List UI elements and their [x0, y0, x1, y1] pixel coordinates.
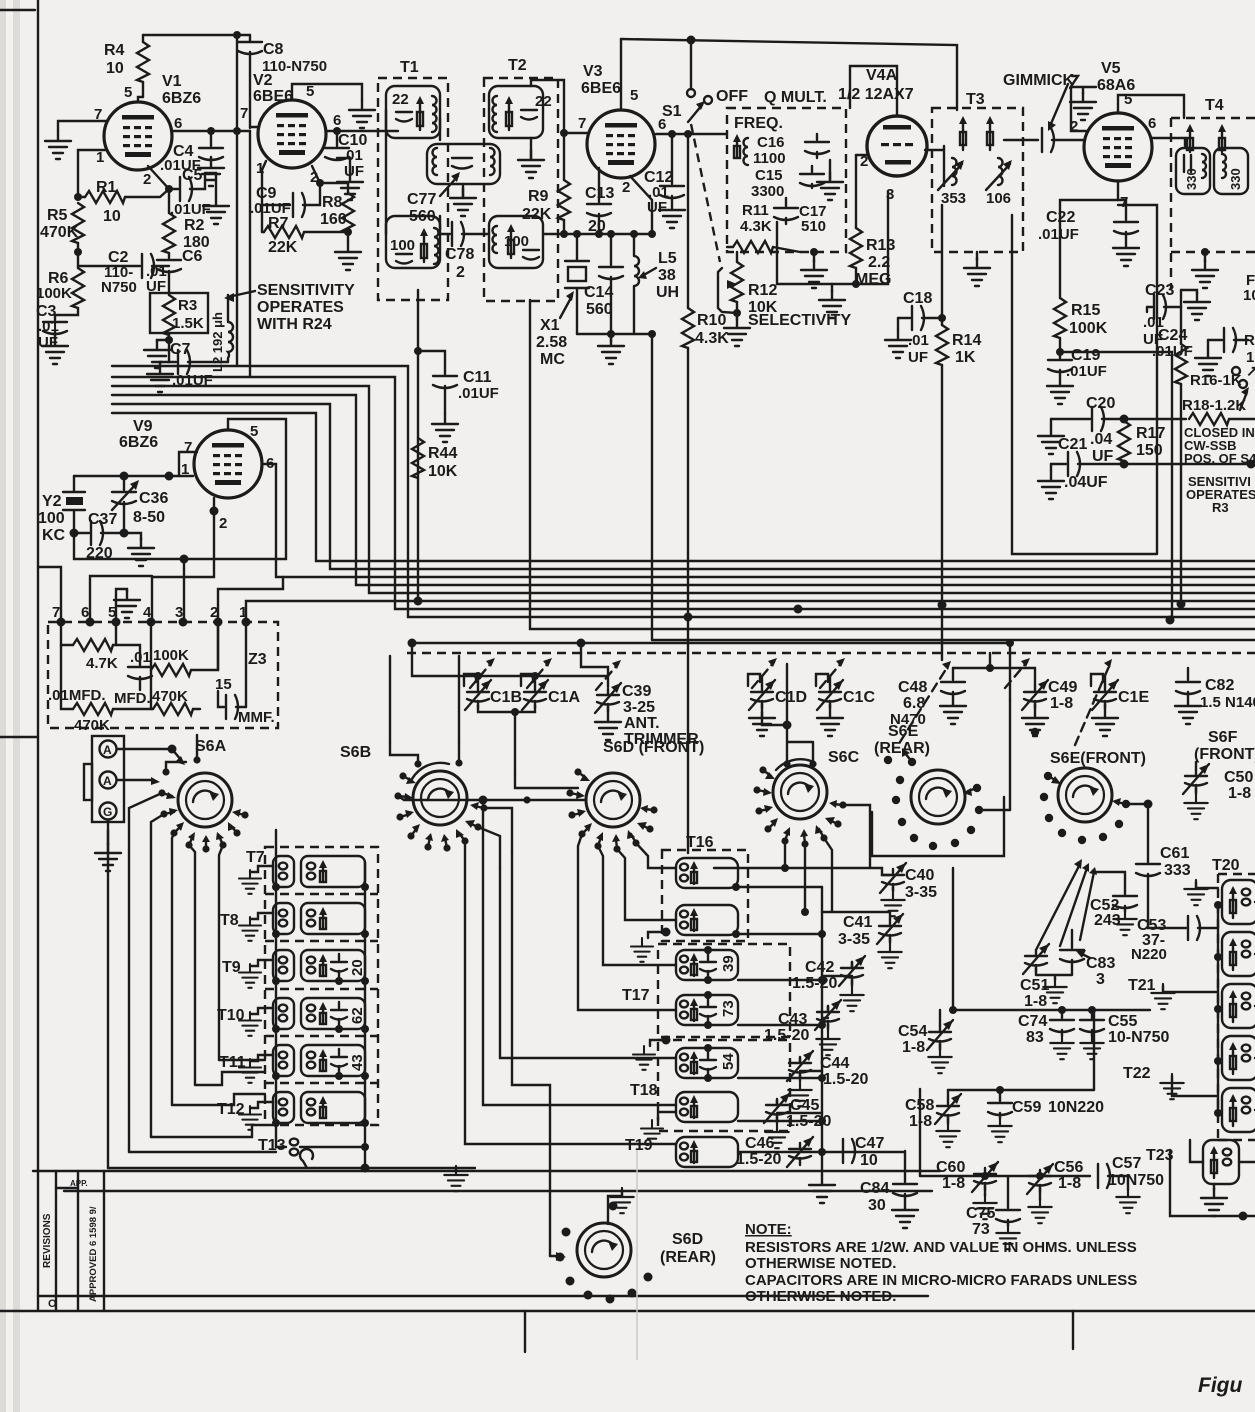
- svg-text:R4: R4: [104, 42, 125, 59]
- trimmer brackets: [464, 674, 1103, 686]
- svg-text:C54: C54: [898, 1023, 927, 1040]
- T16 row1 coil: [676, 858, 822, 891]
- transformer T3 box: [932, 91, 1023, 252]
- left margin tick: [0, 736, 38, 738]
- svg-text:2: 2: [219, 515, 227, 532]
- ground: [198, 158, 224, 186]
- wire pin2 V3 slant: [630, 176, 652, 234]
- svg-text:6.8: 6.8: [903, 695, 925, 712]
- crystal X1: [536, 230, 589, 368]
- svg-text:100K: 100K: [1069, 320, 1108, 337]
- switch S4 contacts: [1239, 380, 1249, 410]
- svg-text:C1D: C1D: [775, 689, 807, 706]
- svg-text:S6E(FRONT): S6E(FRONT): [1050, 750, 1146, 767]
- T1 top tuned circuit: [386, 86, 440, 138]
- S6A contacts: [158, 756, 248, 852]
- svg-text:353: 353: [941, 190, 966, 207]
- svg-text:3300: 3300: [751, 183, 784, 200]
- svg-text:C51: C51: [1020, 977, 1049, 994]
- svg-text:C45: C45: [790, 1097, 819, 1114]
- svg-text:30: 30: [868, 1197, 886, 1214]
- svg-text:APP.: APP.: [70, 1179, 88, 1188]
- rotary switch S6E rear: [874, 723, 965, 824]
- wire row: [949, 868, 1150, 1014]
- svg-text:.04: .04: [1090, 431, 1112, 448]
- ground bottom of vertical: [809, 1175, 835, 1203]
- gimmick capacitor: [1042, 128, 1084, 152]
- Z3 pin7 wire: [38, 567, 61, 622]
- svg-text:C44: C44: [820, 1055, 849, 1072]
- svg-text:C5: C5: [182, 167, 203, 184]
- capacitor C83: [1036, 930, 1115, 1003]
- top B+ wire: [621, 36, 957, 111]
- svg-text:100K: 100K: [36, 285, 72, 302]
- svg-text:ANT.: ANT.: [624, 715, 660, 732]
- svg-text:4.3K: 4.3K: [695, 330, 729, 347]
- resistor R17: [1118, 421, 1165, 461]
- Z3 cap 15 MMF: [215, 622, 275, 726]
- right vertical of bank: [818, 887, 826, 1175]
- svg-text:2: 2: [456, 264, 465, 281]
- wire A2: [117, 777, 160, 785]
- svg-text:1100: 1100: [753, 150, 786, 167]
- svg-text:C15: C15: [755, 167, 783, 184]
- svg-text:22K: 22K: [268, 239, 298, 256]
- transformer T10: [217, 998, 369, 1036]
- T3 secondary out: [1004, 139, 1038, 141]
- svg-text:330: 330: [1184, 168, 1199, 190]
- svg-text:V3: V3: [583, 63, 603, 80]
- svg-text:7: 7: [578, 115, 586, 132]
- svg-text:UF: UF: [647, 199, 667, 216]
- bank verticals: [276, 830, 370, 1173]
- svg-text:510: 510: [801, 218, 826, 235]
- svg-text:R7: R7: [268, 215, 289, 232]
- svg-text:V5: V5: [1101, 60, 1121, 77]
- capacitor C7: [169, 340, 228, 389]
- trimmer C45: [764, 1093, 831, 1148]
- svg-text:7: 7: [52, 604, 60, 621]
- trimmer C1D: [749, 676, 807, 736]
- resistor R11: [727, 202, 800, 253]
- svg-text:3: 3: [175, 604, 183, 621]
- Z3 resistor 470K lower: [74, 670, 200, 734]
- svg-text:22K: 22K: [522, 206, 552, 223]
- svg-text:4.7K: 4.7K: [86, 655, 118, 672]
- transformer T1 box: [378, 59, 448, 300]
- T4 slug arrows: [1186, 124, 1226, 152]
- svg-text:10: 10: [106, 60, 124, 77]
- svg-text:R44: R44: [428, 445, 457, 462]
- svg-text:T2: T2: [508, 57, 527, 74]
- rotary switch S6B: [340, 744, 467, 825]
- wire pin6 V3: [656, 130, 727, 138]
- wire row 2: [948, 1010, 1094, 1094]
- svg-text:Y2: Y2: [42, 493, 62, 510]
- S6A feeder wires down: [108, 735, 223, 1168]
- svg-text:5: 5: [1124, 91, 1132, 108]
- svg-text:.01UF: .01UF: [458, 385, 499, 402]
- T3 plate wire: [925, 149, 944, 151]
- wire pin7 V3: [560, 129, 587, 137]
- svg-text:C82: C82: [1205, 677, 1234, 694]
- crystal Y2: [38, 476, 85, 544]
- svg-text:62: 62: [349, 1007, 366, 1024]
- sensitivity note right: [1186, 474, 1255, 515]
- T3 primary coil: [938, 146, 966, 207]
- bottom right tick lines: [525, 1311, 1073, 1352]
- S6D left feeder: [398, 796, 586, 805]
- svg-text:1-8: 1-8: [1024, 993, 1047, 1010]
- ground under T3: [964, 252, 990, 286]
- svg-text:8-50: 8-50: [133, 509, 165, 526]
- ground in box: [817, 160, 843, 200]
- wire T2 top to V3 grid: [531, 80, 564, 135]
- svg-text:73: 73: [720, 1000, 737, 1017]
- svg-text:C7: C7: [170, 341, 191, 358]
- svg-text:.04UF: .04UF: [1064, 474, 1108, 491]
- resistor R16: [1175, 330, 1242, 604]
- svg-text:6BE6: 6BE6: [253, 88, 293, 105]
- resistor R14: [936, 318, 981, 660]
- capacitor C4: [160, 131, 223, 174]
- bus junction dots: [408, 597, 1186, 648]
- capacitor C19: [1048, 347, 1107, 380]
- svg-text:R13: R13: [866, 237, 895, 254]
- T3 secondary coil: [986, 158, 1012, 207]
- trimmer C46: [736, 1135, 813, 1168]
- svg-text:R5: R5: [47, 207, 68, 224]
- svg-text:C14: C14: [584, 284, 613, 301]
- svg-text:KC: KC: [42, 527, 66, 544]
- wire pin7 to ground: [58, 121, 106, 131]
- svg-text:R2: R2: [184, 217, 205, 234]
- svg-text:N220: N220: [1131, 946, 1167, 963]
- svg-text:REVISIONS: REVISIONS: [42, 1213, 53, 1268]
- svg-text:C16: C16: [757, 134, 785, 151]
- resistor R7: [262, 215, 352, 256]
- svg-text:6: 6: [81, 604, 89, 621]
- transformer T11: [219, 1045, 369, 1083]
- trimmer C40: [714, 863, 937, 916]
- svg-text:6BZ6: 6BZ6: [119, 434, 158, 451]
- wire C20 right / R18: [1124, 418, 1186, 420]
- ground on wire: [444, 1166, 467, 1191]
- svg-text:C50: C50: [1224, 769, 1253, 786]
- capacitor C20: [1038, 395, 1129, 465]
- svg-text:C46: C46: [745, 1135, 774, 1152]
- trimmer C42: [792, 956, 865, 1011]
- svg-text:T22: T22: [1123, 1065, 1151, 1082]
- T22 row coil: [1123, 1065, 1255, 1132]
- rotary switch S6A: [178, 738, 232, 827]
- fan wires to C51/C83/C52: [1036, 859, 1097, 950]
- Z3 pin1 feeder to bus: [246, 601, 1255, 622]
- svg-text:22: 22: [535, 93, 552, 110]
- svg-text:3: 3: [1096, 971, 1105, 988]
- tube V9: [119, 418, 274, 532]
- ground right of C23: [1181, 290, 1210, 320]
- svg-text:T16: T16: [686, 834, 714, 851]
- V5 pin6 wire: [1152, 138, 1185, 146]
- transformer T4 box: [1171, 97, 1255, 290]
- wire y234 to X1 node: [564, 230, 656, 238]
- trimmer C41: [822, 912, 903, 968]
- svg-text:560: 560: [586, 301, 613, 318]
- bottom right wire: [1170, 1150, 1255, 1221]
- capacitor C24: [1152, 327, 1248, 376]
- capacitor C37: [70, 511, 129, 562]
- S6C top feeders: [762, 664, 813, 764]
- capacitor C14: [584, 230, 623, 334]
- ground: [203, 173, 229, 224]
- T4 secondary assembly: [1214, 148, 1248, 194]
- tube V1: [94, 73, 201, 188]
- wire A to S6A: [117, 745, 185, 766]
- resistor R13: [850, 155, 895, 288]
- svg-text:.01: .01: [130, 649, 151, 666]
- wire pin5 to gnd: [292, 84, 375, 128]
- svg-text:.01UF: .01UF: [1038, 226, 1079, 243]
- tube V4A: [838, 67, 927, 203]
- svg-text:T3: T3: [966, 91, 985, 108]
- selectivity label: [748, 312, 851, 329]
- S6D top feeder: [515, 775, 578, 788]
- Z3 resistor 100K: [151, 622, 218, 676]
- svg-text:10: 10: [103, 208, 121, 225]
- capacitor C10: [325, 131, 367, 180]
- T3 bottom wire down: [941, 205, 943, 318]
- capacitor C21: [1038, 436, 1129, 499]
- switch S1: [662, 40, 748, 122]
- wire row 3: [920, 1089, 1090, 1180]
- resistor R44: [412, 438, 458, 480]
- trimmer C49: [1022, 668, 1077, 736]
- svg-text:1.5 N140: 1.5 N140: [1200, 694, 1255, 711]
- svg-text:V1: V1: [162, 73, 182, 90]
- svg-text:T1: T1: [400, 59, 419, 76]
- svg-text:S6C: S6C: [828, 749, 860, 766]
- wire C48/C49 tops: [953, 653, 1035, 672]
- capacitor C11: [414, 290, 499, 601]
- ground: [337, 172, 363, 200]
- svg-text:R15: R15: [1071, 302, 1100, 319]
- svg-text:.01: .01: [38, 318, 59, 335]
- svg-text:OPERATES: OPERATES: [257, 299, 344, 316]
- ground under R3: [144, 340, 170, 368]
- svg-text:100: 100: [504, 233, 529, 250]
- T1 bottom tuned circuit: [386, 216, 440, 268]
- wire top B+: [143, 31, 250, 39]
- svg-text:6BE6: 6BE6: [581, 80, 621, 97]
- capacitor C55: [1080, 1010, 1169, 1059]
- svg-text:1.5K: 1.5K: [172, 315, 204, 332]
- T4 ground: [1192, 248, 1218, 288]
- svg-text:6: 6: [333, 112, 341, 129]
- V5 pin5 riser: [1118, 95, 1184, 118]
- svg-text:39: 39: [720, 955, 737, 972]
- svg-text:C56: C56: [1054, 1159, 1083, 1176]
- S6E front contacts: [1040, 772, 1130, 844]
- svg-text:2: 2: [622, 179, 630, 196]
- svg-text:C24: C24: [1158, 327, 1187, 344]
- svg-text:1: 1: [96, 149, 104, 166]
- svg-text:R3: R3: [1212, 500, 1229, 515]
- rotary switch S6E front: [1050, 750, 1146, 822]
- svg-text:OTHERWISE NOTED.: OTHERWISE NOTED.: [745, 1288, 896, 1305]
- capacitor C74: [1018, 1010, 1074, 1059]
- svg-text:C36: C36: [139, 490, 168, 507]
- resistor R15: [1054, 298, 1108, 358]
- coupling coil assembly C77: [427, 144, 500, 184]
- row out wires: [1239, 902, 1255, 1162]
- S6E rear contacts: [884, 728, 1039, 850]
- transformer T19: [625, 1137, 905, 1167]
- wire C1B/C1A bottoms to S6D: [478, 705, 535, 775]
- svg-text:20: 20: [349, 959, 366, 976]
- svg-text:560: 560: [409, 208, 436, 225]
- T21 row1 coil: [1128, 977, 1255, 1028]
- wire pin1: [74, 150, 107, 201]
- svg-text:1.5-20: 1.5-20: [786, 1113, 831, 1130]
- Z3 pin dots: [52, 604, 251, 627]
- svg-text:R17: R17: [1136, 425, 1165, 442]
- resistor R3 box: [150, 293, 208, 344]
- wire crystal box to Z3 pin3: [183, 559, 185, 622]
- svg-text:333: 333: [1164, 862, 1191, 879]
- wire pin2 slant: [312, 166, 348, 193]
- svg-text:C37: C37: [88, 511, 117, 528]
- svg-text:UF: UF: [344, 163, 364, 180]
- svg-text:3-35: 3-35: [838, 931, 870, 948]
- S6B contacts: [394, 759, 487, 851]
- svg-text:SELECTIVITY: SELECTIVITY: [748, 312, 851, 329]
- svg-text:MEG: MEG: [855, 271, 891, 288]
- svg-text:5: 5: [250, 423, 258, 440]
- capacitor C48: [890, 668, 966, 728]
- ground left of C7: [147, 362, 173, 392]
- Z3 pin5 ground: [114, 589, 140, 622]
- svg-text:FREQ.: FREQ.: [734, 115, 783, 132]
- Z3 pin6 wire: [90, 576, 152, 622]
- C77 label: [407, 172, 460, 225]
- svg-text:100: 100: [38, 510, 65, 527]
- capacitor C15: [751, 166, 824, 200]
- svg-text:4: 4: [143, 604, 152, 621]
- svg-text:S6B: S6B: [340, 744, 371, 761]
- capacitor C59: [988, 1090, 1104, 1142]
- svg-text:RESISTORS ARE 1/2W. AND VALUE: RESISTORS ARE 1/2W. AND VALUE IN OHMS. U…: [745, 1239, 1137, 1256]
- T16 ground: [631, 928, 671, 962]
- trimmer C1C: [817, 676, 875, 736]
- svg-text:3: 3: [886, 186, 894, 203]
- trimmer C54: [898, 1010, 953, 1073]
- capacitor C47: [843, 1135, 884, 1169]
- capacitor C9: [250, 183, 320, 217]
- svg-text:V2: V2: [253, 72, 273, 89]
- S6D contacts: [523, 768, 657, 852]
- T20 row2 coil: [1214, 932, 1255, 976]
- ground: [659, 200, 685, 228]
- svg-text:WITH R24: WITH R24: [257, 316, 332, 333]
- tube V3: [578, 63, 666, 196]
- transformer T9: [222, 950, 369, 988]
- T18 row1 coil + cap 54: [676, 1044, 822, 1082]
- svg-text:6: 6: [1148, 115, 1156, 132]
- svg-text:1-8: 1-8: [1058, 1175, 1081, 1192]
- capacitor C75: [966, 1176, 1020, 1249]
- svg-text:APPROVED 6 1598 9/: APPROVED 6 1598 9/: [88, 1206, 99, 1302]
- svg-text:.01MFD.: .01MFD.: [48, 687, 106, 704]
- potentiometer R12: [718, 252, 778, 317]
- ground: [124, 533, 154, 566]
- svg-text:SENSITIVITY: SENSITIVITY: [257, 282, 355, 299]
- svg-text:V4A: V4A: [866, 67, 898, 84]
- svg-text:C1C: C1C: [843, 689, 875, 706]
- svg-text:R11: R11: [742, 202, 769, 219]
- resistor R6: [36, 252, 84, 320]
- Z3 resistor 4.7K: [61, 622, 118, 672]
- svg-text:C40: C40: [905, 867, 934, 884]
- svg-text:R18-1.2K: R18-1.2K: [1182, 397, 1246, 414]
- svg-text:T20: T20: [1212, 857, 1240, 874]
- S6F label: [1194, 729, 1255, 763]
- tube V5: [1070, 60, 1156, 211]
- V9 pin2 wire: [152, 498, 219, 622]
- transformer T12: [217, 1092, 369, 1130]
- svg-text:470K: 470K: [40, 224, 79, 241]
- capacitor C18: [885, 290, 946, 366]
- trimmer C36: [112, 476, 168, 533]
- svg-text:C77: C77: [407, 191, 436, 208]
- svg-text:10: 10: [860, 1152, 878, 1169]
- svg-text:5: 5: [306, 83, 314, 100]
- resistor R4: [104, 35, 149, 97]
- S6E front right feeder: [1126, 800, 1153, 809]
- transformer T16 box: [662, 834, 748, 941]
- trimmer C1B: [465, 676, 522, 710]
- svg-text:C60: C60: [936, 1159, 965, 1176]
- ground: [432, 414, 458, 442]
- extra bus lines: [412, 300, 1255, 700]
- tube V2: [240, 72, 341, 186]
- Z3 resistor 470K upper: [48, 645, 151, 715]
- svg-text:1-8: 1-8: [1228, 785, 1251, 802]
- bank dashed box: [265, 847, 378, 1125]
- svg-text:V9: V9: [133, 418, 153, 435]
- svg-text:A: A: [103, 743, 112, 757]
- svg-text:160: 160: [320, 211, 347, 228]
- svg-text:10: 10: [1243, 287, 1255, 304]
- capacitor C12: [644, 134, 684, 216]
- svg-text:Figu: Figu: [1198, 1374, 1242, 1397]
- svg-text:S6E: S6E: [888, 723, 919, 740]
- T2 top tuned circuit: [489, 86, 552, 138]
- trimmer C50: [1183, 762, 1253, 819]
- wire pin2 slant: [148, 166, 173, 197]
- svg-text:C57: C57: [1112, 1155, 1141, 1172]
- svg-text:C20: C20: [1086, 395, 1115, 412]
- V9 plate loop: [180, 419, 287, 564]
- svg-text:7: 7: [240, 105, 248, 122]
- rotary switch S6D rear: [577, 1223, 716, 1277]
- capacitor C52: [1090, 872, 1137, 935]
- svg-text:L5: L5: [658, 250, 677, 267]
- main gang dashed line: [407, 652, 1255, 654]
- svg-text:T9: T9: [222, 959, 241, 976]
- capacitor C17: [774, 198, 827, 235]
- T2 bottom tuned circuit: [489, 216, 543, 268]
